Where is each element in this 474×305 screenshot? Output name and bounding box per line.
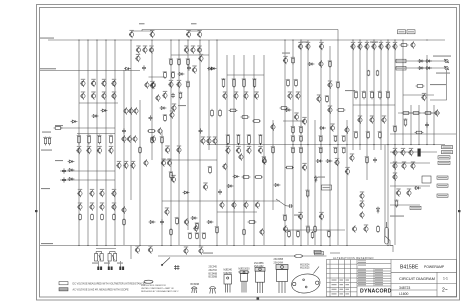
wire	[132, 30, 153, 32]
capacitor C11	[122, 128, 126, 133]
junction	[96, 39, 97, 40]
resistor R23	[242, 176, 251, 179]
junction	[359, 144, 360, 145]
transistor T40	[133, 107, 138, 114]
wire	[395, 60, 446, 62]
resistor R98	[170, 228, 173, 236]
wire	[60, 127, 115, 129]
resistor R47	[187, 81, 190, 89]
resistor R74	[328, 230, 331, 238]
resistor R45	[178, 58, 181, 66]
transistor T36	[97, 147, 102, 154]
transistor T83	[302, 118, 307, 125]
junction	[187, 39, 188, 40]
transistor T43	[132, 135, 137, 142]
svg-text:BC556B: BC556B	[209, 277, 218, 279]
transistor T84	[330, 124, 335, 131]
resistor R18	[259, 134, 262, 145]
resistor R5	[79, 214, 82, 221]
transistor T2	[150, 31, 155, 38]
capacitor C9	[425, 122, 429, 127]
junction	[359, 39, 360, 40]
wire	[410, 105, 412, 145]
wire	[418, 105, 420, 145]
transistor T10	[197, 46, 202, 53]
transistor T105	[392, 149, 397, 156]
resistor R63	[416, 85, 425, 88]
node connector ST3	[396, 66, 406, 70]
transistor T86	[302, 164, 307, 171]
junction	[394, 144, 395, 145]
wire	[390, 246, 393, 253]
capacitor C2	[187, 65, 191, 70]
junction	[199, 245, 200, 246]
wire	[199, 40, 201, 245]
wire	[227, 74, 264, 76]
transistor T52	[77, 203, 82, 210]
package TO-247	[255, 267, 265, 293]
resistor R93	[329, 60, 332, 68]
package TO-220	[240, 271, 248, 293]
resistor R29	[292, 136, 295, 142]
transistor T77	[262, 157, 267, 164]
transistor T113	[406, 189, 411, 196]
wire	[337, 46, 339, 245]
node net +UB	[438, 156, 450, 159]
transistor T34	[76, 147, 81, 154]
wire	[272, 120, 274, 210]
wire	[97, 261, 99, 267]
wire	[78, 40, 80, 245]
resistor R7	[101, 214, 104, 221]
resistor R91	[284, 215, 287, 221]
resistor R84	[229, 109, 238, 112]
transistor T73	[161, 159, 166, 166]
junction	[233, 245, 234, 246]
wire	[178, 40, 180, 245]
diode D7	[68, 169, 75, 172]
svg-text:348723: 348723	[399, 286, 410, 290]
wire	[187, 40, 189, 230]
transistor T120	[352, 225, 357, 232]
wire	[346, 120, 348, 245]
svg-text:MJ15025: MJ15025	[300, 268, 310, 270]
transistor T72	[176, 146, 181, 153]
transistor T61	[206, 137, 211, 144]
jumper J3	[174, 265, 180, 270]
junction	[307, 144, 308, 145]
label D label	[318, 177, 325, 178]
label label	[294, 215, 300, 216]
resistor R64	[402, 112, 411, 115]
transistor T116	[283, 225, 288, 232]
junction	[178, 39, 179, 40]
wire	[283, 120, 305, 122]
junction	[114, 39, 115, 40]
resistor R62	[400, 44, 409, 47]
transistor T4	[197, 31, 202, 38]
resistor R82	[211, 109, 214, 117]
transistor T54	[99, 203, 104, 210]
label label	[282, 53, 290, 54]
transistor T8	[184, 46, 189, 53]
resistor R95	[314, 225, 317, 233]
resistor R6	[91, 214, 94, 221]
svg-text:BC546B: BC546B	[191, 284, 200, 286]
resistor R41	[287, 79, 290, 87]
transistor T31	[144, 81, 149, 88]
wire	[366, 40, 368, 180]
diode D22	[425, 67, 432, 70]
wire	[131, 31, 133, 32]
svg-text:MJE340: MJE340	[224, 270, 233, 272]
resistor R71	[288, 230, 291, 238]
resistor R81	[216, 226, 219, 234]
diode D4	[92, 115, 99, 118]
wire	[119, 261, 121, 267]
transistor T74	[167, 159, 172, 166]
svg-text:2SA1494: 2SA1494	[274, 261, 284, 264]
resistor R8	[113, 214, 116, 221]
wire	[373, 40, 375, 150]
resistor R25	[272, 146, 275, 154]
transistor T6	[142, 46, 147, 53]
transistor T24	[91, 80, 96, 87]
wire	[394, 40, 396, 245]
node net OUT	[442, 146, 453, 149]
diode D3	[101, 109, 108, 112]
transistor T64	[236, 147, 241, 154]
capacitor C7	[373, 157, 377, 162]
wire	[337, 30, 339, 47]
resistor R89	[170, 171, 173, 179]
wire	[40, 245, 393, 247]
transistor T107	[408, 149, 413, 156]
wire	[253, 55, 255, 245]
transistor T70	[255, 201, 260, 208]
resistor R55	[387, 91, 390, 100]
junction	[300, 144, 301, 145]
wire	[314, 120, 316, 245]
transistor T26	[111, 80, 116, 87]
junction	[292, 39, 293, 40]
wire	[403, 94, 434, 96]
svg-text:POWERAMP: POWERAMP	[424, 265, 445, 269]
label label	[370, 42, 378, 43]
wire	[276, 199, 288, 206]
transistor T7	[149, 46, 154, 53]
resistor R65	[412, 112, 421, 115]
transistor T22	[392, 43, 397, 50]
wire	[162, 200, 280, 202]
resistor R70	[307, 225, 310, 233]
resistor R38	[343, 147, 346, 153]
resistor R42	[295, 79, 298, 87]
resistor R92	[337, 81, 340, 89]
wire	[385, 145, 390, 246]
resistor R88	[161, 136, 164, 144]
resistor R21	[164, 71, 167, 79]
diode D14	[316, 160, 323, 163]
package TO-3P	[276, 265, 288, 294]
resistor R20	[179, 92, 182, 100]
resistor R44	[170, 58, 173, 66]
junction	[387, 245, 388, 246]
junction	[139, 245, 140, 246]
title smudges	[332, 260, 384, 295]
resistor R22	[172, 71, 175, 79]
transistor T112	[396, 189, 401, 196]
diode D1	[124, 67, 131, 70]
diode D12	[274, 184, 281, 187]
node net SENSE	[410, 206, 421, 209]
junction	[433, 144, 434, 145]
transistor T114	[298, 213, 303, 220]
transistor T136	[143, 159, 148, 166]
wire	[284, 40, 286, 245]
svg-text:DYNACORD: DYNACORD	[360, 289, 392, 295]
transistor T25	[101, 80, 106, 87]
resistor R69	[395, 199, 398, 207]
junction	[346, 245, 347, 246]
junction	[418, 144, 419, 145]
transistor T9	[190, 46, 195, 53]
label label	[178, 105, 186, 106]
label label	[300, 42, 308, 43]
switch S1	[161, 258, 170, 266]
node connector ST2	[396, 59, 406, 63]
resistor R73	[311, 231, 314, 239]
svg-text:FLACH-PROF. RESISTOR: FLACH-PROF. RESISTOR	[141, 284, 166, 287]
wire	[188, 31, 190, 32]
diode D15	[326, 160, 333, 163]
wire	[60, 170, 115, 172]
resistor R99	[123, 218, 126, 226]
diode D6	[68, 160, 75, 163]
transistor T45	[116, 162, 121, 169]
diode D21	[425, 60, 432, 63]
wire	[387, 40, 389, 245]
diode D19	[418, 60, 425, 63]
node net REL	[437, 176, 448, 179]
transistor T115	[319, 213, 324, 220]
label signal in	[40, 38, 54, 39]
label note	[436, 73, 450, 74]
transistor T81	[169, 111, 174, 118]
transistor T58	[243, 92, 248, 99]
transistor T17	[357, 43, 362, 50]
resistor R46	[187, 58, 190, 66]
diode D18	[178, 73, 185, 76]
wire	[300, 40, 302, 245]
transistor T41	[121, 135, 126, 142]
label ref label	[42, 132, 51, 133]
transistor T82	[203, 183, 208, 190]
junction	[216, 39, 217, 40]
resistor R57	[367, 131, 370, 139]
label BC546B	[191, 284, 200, 286]
diode D28	[227, 185, 234, 188]
wire	[243, 55, 245, 245]
wire	[380, 40, 382, 150]
wire	[390, 162, 430, 164]
transistor T79	[162, 92, 167, 99]
svg-text:2SC3856: 2SC3856	[254, 263, 264, 265]
label MJ15024	[300, 264, 310, 269]
resistor R48	[164, 114, 167, 122]
label label	[390, 216, 404, 217]
junction	[284, 39, 285, 40]
svg-text:2~: 2~	[442, 288, 448, 294]
resistor R56	[355, 131, 358, 139]
junction	[87, 39, 88, 40]
wire	[402, 40, 404, 145]
label 2SC3858	[274, 259, 284, 264]
transistor T33	[155, 94, 160, 101]
resistor R96	[248, 221, 257, 224]
node net LS output	[314, 250, 321, 253]
transistor T38	[123, 107, 128, 114]
diode D9	[183, 191, 190, 194]
resistor R80	[196, 223, 199, 229]
connector pin pair	[108, 267, 113, 271]
resistor R27	[292, 126, 295, 134]
wire	[151, 31, 153, 32]
resistor R86	[252, 120, 261, 123]
resistor R61	[337, 109, 346, 112]
junction	[394, 39, 395, 40]
resistor R32	[334, 136, 337, 142]
transistor T71	[165, 146, 170, 153]
transistor T76	[238, 153, 243, 160]
junction	[226, 144, 227, 145]
potentiometer P1	[95, 252, 104, 262]
transistor T90	[283, 57, 288, 64]
label label	[345, 90, 355, 91]
wire	[139, 100, 141, 245]
junction	[170, 245, 171, 246]
transistor T119	[359, 211, 364, 218]
resistor R10	[48, 137, 50, 146]
transistor T93	[176, 81, 181, 88]
junction	[402, 144, 403, 145]
title block frame	[327, 260, 457, 297]
resistor R83	[219, 109, 222, 117]
wire	[123, 70, 125, 245]
svg-text:ALTERATIONS RESERVED: ALTERATIONS RESERVED	[333, 256, 374, 260]
resistor R76	[176, 217, 179, 225]
transistor T99	[345, 168, 350, 175]
wire	[170, 40, 172, 245]
resistor R101	[151, 136, 154, 144]
resistor R37	[334, 147, 337, 153]
transistor T96	[369, 116, 374, 123]
junction	[426, 39, 427, 40]
label net (A)	[139, 23, 145, 24]
transistor T106	[400, 149, 405, 156]
transistor T55	[111, 203, 116, 210]
junction	[253, 245, 254, 246]
capacitor C5	[218, 189, 222, 194]
transistor T118	[359, 201, 364, 208]
note legend DC	[59, 282, 68, 285]
wire	[426, 55, 428, 145]
transistor T110	[410, 162, 415, 169]
resistor R33	[343, 136, 346, 142]
svg-text:2SA733: 2SA733	[209, 269, 218, 272]
wire	[96, 248, 116, 250]
transistor T80	[150, 82, 155, 89]
wire	[430, 70, 447, 100]
transistor T126	[164, 208, 169, 215]
label label	[55, 125, 63, 126]
label 2SC3856	[254, 263, 264, 268]
resistor R78	[196, 233, 199, 239]
transistor T123	[148, 246, 153, 253]
label label	[104, 263, 110, 264]
label label	[203, 253, 213, 254]
transistor T132	[318, 60, 323, 67]
resistor R4	[110, 135, 113, 145]
svg-text:REPLACED BY ORIGINAL PART ONLY: REPLACED BY ORIGINAL PART ONLY!	[141, 290, 179, 293]
transistor T111	[392, 173, 397, 180]
junction	[216, 245, 217, 246]
wire	[263, 55, 265, 245]
node B+ rail	[0, 0, 1, 1]
transistor T37	[108, 147, 113, 154]
capacitor C6	[149, 115, 153, 120]
transistor T97	[381, 116, 386, 123]
relay K1	[422, 176, 431, 183]
node net LS-	[315, 252, 324, 255]
transistor T130	[270, 123, 275, 130]
wire	[283, 229, 345, 231]
capacitor C3	[171, 93, 175, 98]
wire	[390, 204, 420, 206]
transistor T134	[259, 228, 264, 235]
diode D5	[71, 120, 78, 123]
junction	[96, 245, 97, 246]
resistor R53	[371, 91, 374, 100]
resistor R79	[203, 233, 206, 239]
transistor T20	[378, 43, 383, 50]
transistor T117	[359, 192, 364, 199]
diode D11	[233, 175, 240, 178]
wire	[330, 252, 340, 254]
junction	[410, 144, 411, 145]
transistor T92	[168, 81, 173, 88]
svg-text:2SC945: 2SC945	[209, 267, 218, 269]
node net J1	[398, 30, 406, 34]
diode D2	[207, 67, 214, 70]
transistor T68	[231, 201, 236, 208]
resistor R17	[248, 134, 251, 145]
package TO-92 BC546	[192, 287, 197, 293]
node net C7	[322, 185, 332, 190]
fuse F1	[385, 222, 389, 244]
transistor T12	[198, 55, 203, 62]
resistor R35	[300, 147, 303, 153]
transistor T67	[219, 201, 224, 208]
label 2SC945 group	[209, 267, 218, 279]
resistor R24	[254, 176, 263, 179]
wire	[292, 40, 294, 245]
diode D27	[210, 67, 217, 70]
resistor R9	[44, 137, 46, 146]
transistor T87	[287, 92, 292, 99]
transistor T19	[371, 43, 376, 50]
junction	[329, 144, 330, 145]
